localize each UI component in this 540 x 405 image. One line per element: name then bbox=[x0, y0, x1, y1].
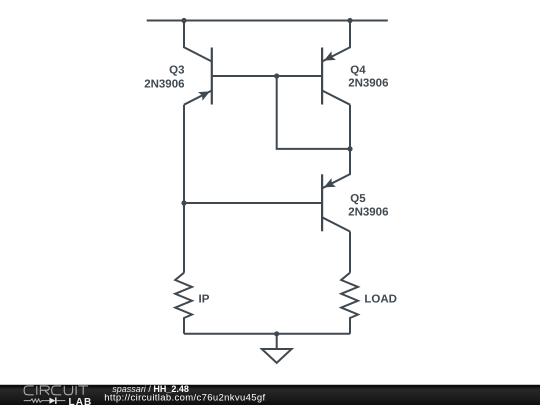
wire bottom bus bbox=[184, 333, 350, 335]
Q4 emitter arrow bbox=[324, 51, 336, 60]
node junction ground bbox=[274, 331, 279, 336]
node junction rail right bbox=[347, 18, 352, 23]
wire top supply rail bbox=[147, 20, 388, 22]
node junction crossover bbox=[347, 146, 352, 151]
svg-text:LAB: LAB bbox=[69, 397, 93, 405]
transistor Q4 bbox=[322, 48, 350, 105]
ground bbox=[262, 334, 292, 363]
wire Q5 base to left column bbox=[184, 202, 322, 204]
node junction rail left bbox=[181, 18, 186, 23]
wire Q5 emitter up to node bbox=[322, 149, 350, 188]
logo diode bbox=[49, 397, 65, 404]
logo LAB wordmark bbox=[69, 397, 93, 405]
label Q3 bbox=[169, 64, 184, 76]
label Q3 value 2N3906 bbox=[144, 79, 184, 91]
label Q4 value 2N3906 bbox=[348, 78, 388, 90]
label LOAD bbox=[364, 294, 397, 306]
Q5 emitter arrow bbox=[324, 178, 336, 187]
svg-text:http://circuitlab.com/c76u2nkv: http://circuitlab.com/c76u2nkvu45gf bbox=[104, 393, 265, 404]
resistor LOAD bbox=[341, 273, 358, 334]
Q3 emitter arrow bbox=[198, 91, 210, 100]
wire base bus Q3-Q4 bbox=[212, 75, 322, 77]
node junction Q5 base bbox=[181, 200, 186, 205]
wire Q3 collector to rail bbox=[184, 21, 212, 62]
logo CIRCUIT wordmark bbox=[24, 386, 88, 395]
wire Q4 emitter to rail bbox=[322, 21, 350, 62]
footer credit line bbox=[104, 384, 265, 404]
wire Q4 collector down bbox=[349, 105, 351, 149]
wire base bus down to crossover bbox=[277, 76, 350, 149]
label Q5 bbox=[350, 193, 366, 205]
resistor IP bbox=[175, 273, 192, 334]
transistor Q5 bbox=[322, 174, 350, 231]
wire Q5 collector down to LOAD bbox=[349, 232, 351, 273]
label IP bbox=[199, 293, 210, 305]
label Q5 value 2N3906 bbox=[348, 206, 388, 218]
transistor Q3 bbox=[184, 48, 212, 105]
footer bar bbox=[0, 384, 540, 385]
label Q4 bbox=[350, 64, 366, 76]
logo resistor zigzag bbox=[24, 399, 50, 402]
wire Q3 emitter down to IP bbox=[183, 105, 185, 273]
node junction base bus bbox=[274, 73, 279, 78]
